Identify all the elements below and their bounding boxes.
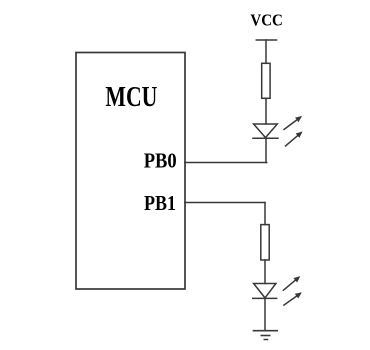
svg-text:PB1: PB1 [144,191,176,215]
wire PB1 corner down to R2 [264,203,266,225]
wire VCC to R1 [265,40,267,63]
wire LED2 to ground [264,298,266,330]
ground [254,331,278,340]
wire PB1 [185,202,265,204]
MCU U1 [76,53,185,290]
LED D2 [253,276,302,305]
wire R2 to LED2 [264,260,266,284]
wire PB0 [185,162,267,164]
resistor R2 [261,225,269,260]
svg-text:MCU: MCU [105,82,157,113]
svg-text:PB0: PB0 [144,149,177,173]
VCC power rail symbol [256,39,276,41]
LED D1 [253,116,303,146]
wire LED1 to PB0 node [265,138,267,162]
wire R1 to LED1 [265,98,267,124]
resistor R1 [262,63,270,98]
svg-text:VCC: VCC [250,11,283,30]
